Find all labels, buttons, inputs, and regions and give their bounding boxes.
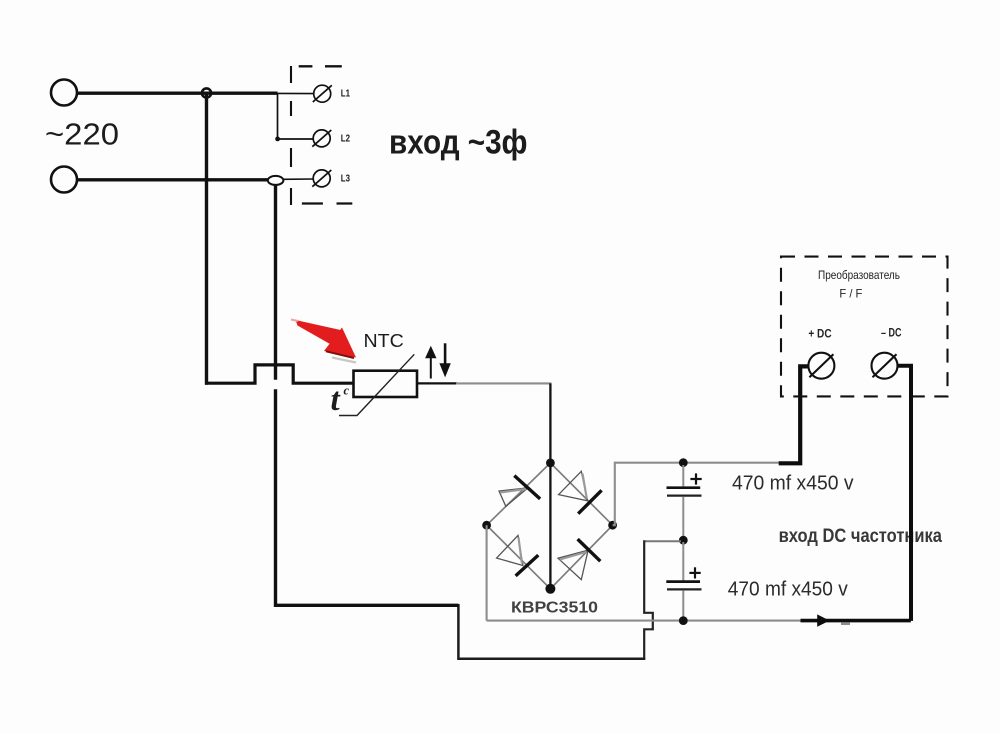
svg-text:L2: L2: [341, 134, 350, 145]
junction ring node A: [202, 88, 211, 97]
bridge node right: [608, 521, 617, 530]
svg-text:вход ~3ф: вход ~3ф: [389, 124, 528, 162]
bridge node bottom: [545, 584, 555, 594]
current direction arrow down: [439, 343, 450, 377]
wire: thick segment of return run: [274, 604, 458, 607]
svg-text:t: t: [331, 382, 341, 418]
capacitor C2 polarity +: [689, 567, 700, 578]
svg-text:L1: L1: [341, 89, 351, 100]
bridge node top: [546, 459, 555, 468]
wire: thin lead into L3 screw: [283, 178, 313, 180]
wire: bottom rail black with arrow: [801, 619, 911, 623]
current direction arrow up: [425, 346, 436, 379]
terminal circle bottom (phase input 2): [51, 167, 77, 193]
svg-text:c: c: [344, 384, 350, 398]
svg-text:+ DC: + DC: [808, 328, 831, 340]
wire: lower return run: [274, 605, 645, 659]
svg-text:F / F: F / F: [839, 287, 862, 301]
svg-text:КВРС3510: КВРС3510: [511, 600, 598, 617]
wire: vertical drop from node A: [205, 93, 208, 385]
wire: top terminal to L1 branch: [78, 91, 278, 94]
wire: midpoint left stub: [645, 540, 681, 542]
capacitor C1 lead top: [682, 465, 684, 486]
screw terminal − DC: [872, 353, 898, 379]
dashed terminal box left edge: [290, 66, 292, 205]
terminal circle top (phase input 1): [51, 80, 77, 106]
dashed terminal box top edge: [299, 65, 342, 67]
junction dot C2 bottom: [679, 616, 688, 625]
capacitor C1 plates: [667, 488, 702, 496]
wire: NTC output black part: [416, 382, 457, 384]
wire: hop section from node A drop to NTC: [205, 365, 356, 383]
wire: vertical drop from node B (lower part, after hop gap): [274, 389, 277, 607]
screw terminal L3: [312, 170, 331, 187]
dashed terminal box bottom edge: [302, 202, 352, 204]
junction oval node B: [268, 176, 284, 185]
junction dot C1 top: [679, 458, 688, 467]
svg-text:вход DC частотника: вход DC частотника: [779, 526, 943, 547]
converter dashed box: [781, 257, 948, 397]
svg-text:470 mf x450 v: 470 mf x450 v: [732, 473, 854, 495]
diode D1 upper-left: [499, 476, 540, 507]
junction dot midpoint: [679, 536, 688, 545]
svg-text:470 mf x450 v: 470 mf x450 v: [728, 579, 848, 601]
screw terminal + DC: [808, 353, 834, 379]
red callout arrow: [291, 320, 356, 363]
wire: bottom rail gray: [487, 620, 802, 622]
capacitor C1 polarity +: [690, 473, 701, 484]
wire: - DC drop: [898, 366, 912, 621]
screw terminal L1: [313, 85, 332, 102]
wire: vertical drop from node B (upper part): [274, 184, 277, 380]
wire: AC feed vertical through bridge: [549, 383, 551, 588]
wire: bridge - output drop: [486, 525, 488, 620]
thermistor NTC body: [354, 371, 418, 397]
svg-text:L3: L3: [341, 174, 351, 185]
diode D2 upper-right: [559, 471, 602, 513]
svg-text:NTC: NTC: [364, 331, 404, 351]
diode D3 lower-left: [497, 535, 539, 576]
capacitor C1 lead bottom: [682, 497, 684, 541]
wire: NTC output gray part to bridge: [456, 382, 552, 384]
wire: branch down to L2: [278, 93, 314, 139]
wire: thin lead into L1 screw: [277, 92, 314, 94]
bridge rectifier diamond frame: [487, 463, 613, 589]
svg-text:~220: ~220: [45, 117, 119, 152]
bridge node left: [482, 521, 491, 530]
wire: midpoint drop with hop over bottom rail: [644, 540, 653, 660]
capacitor C2 lead bottom: [682, 590, 684, 620]
thermistor diagonal stroke: [339, 354, 414, 415]
gray minus tick: [841, 623, 850, 625]
wire: − DC drop overlay (over text): [909, 500, 913, 621]
diode D4 lower-right: [558, 539, 600, 580]
arrowhead on bottom rail: [817, 614, 829, 626]
svg-text:Преобразователь: Преобразователь: [818, 268, 900, 282]
svg-text:– DC: – DC: [881, 328, 902, 340]
junction dot at L2 corner: [275, 137, 280, 142]
wire: + DC thick hook: [779, 366, 809, 463]
wire: bottom terminal to L3: [78, 178, 269, 181]
capacitor C2 plates: [666, 582, 701, 590]
capacitor C2 lead top: [682, 542, 684, 581]
screw terminal L2: [312, 130, 331, 147]
wire: bridge + output up: [613, 463, 779, 526]
